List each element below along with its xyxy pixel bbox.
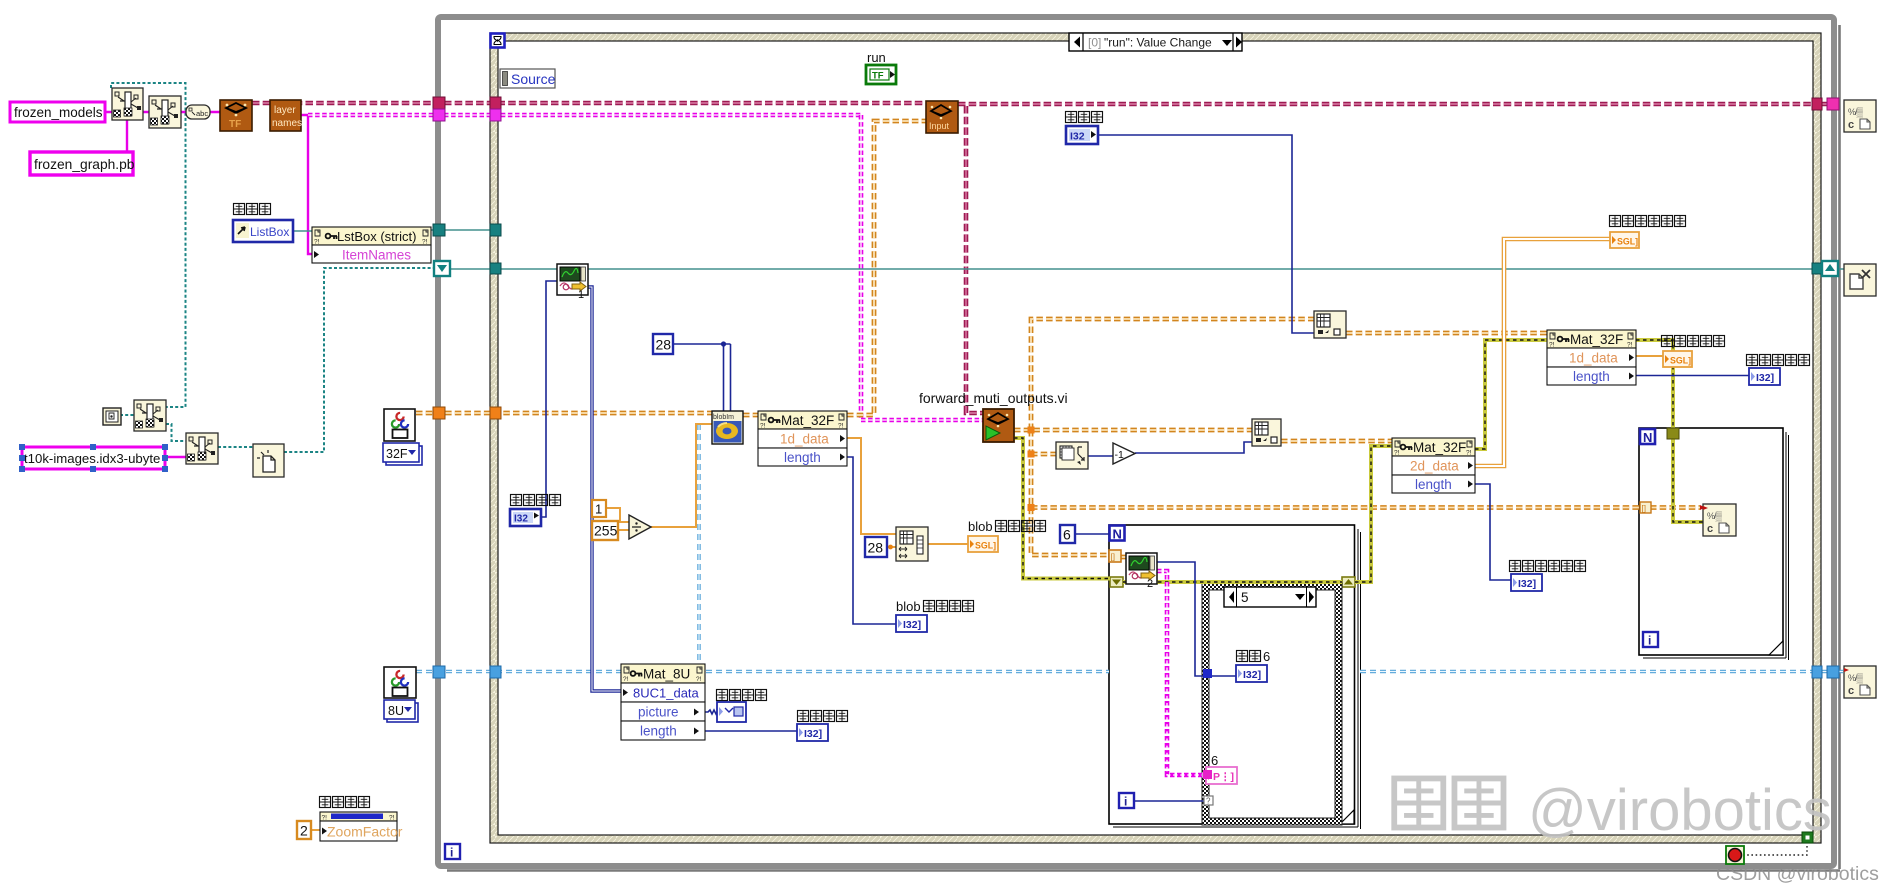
tunnel olive on right for loop top — [1667, 428, 1679, 439]
event Source label box — [500, 69, 556, 88]
tunnel teal on while left border (listbox ref) — [433, 224, 445, 236]
svg-text:?!: ?! — [696, 676, 702, 683]
tunnel dark red on while right border — [1827, 98, 1839, 110]
wire: olive Mat wire inside inner for loop — [1123, 580, 1342, 584]
junction dots on orange trunk — [1028, 427, 1035, 512]
svg-text:SGL]: SGL] — [1617, 237, 1638, 247]
wire: TF session dark-red chain from TF icon across event to right edge — [252, 103, 1828, 104]
tunnel dark red on event left border — [490, 97, 501, 109]
while loop border — [438, 17, 1840, 871]
wire: olive Mat from right shift register to Mat_32F 2d node — [1355, 446, 1392, 582]
build path VI icon A — [112, 88, 143, 120]
svg-text:CSDN @virobotics: CSDN @virobotics — [1716, 863, 1879, 885]
svg-text:?!: ?! — [623, 676, 629, 683]
svg-text:%/▒: %/▒ — [1707, 511, 1723, 522]
label original size — [798, 711, 848, 722]
svg-text:Mat_32F: Mat_32F — [1413, 440, 1466, 455]
wire: path teal segments top-left cluster — [111, 83, 253, 447]
wire: Mat_32F length to blob size indicator — [847, 457, 896, 624]
svg-text:I32]: I32] — [1518, 578, 1536, 590]
orange array tunnel on inner for loop — [1109, 550, 1121, 562]
wire: forward outputs orange chain trunk — [1014, 319, 1700, 557]
svg-text:picture: picture — [638, 705, 679, 720]
svg-text:%/▒: %/▒ — [1848, 673, 1864, 684]
Mat to array transpose icon — [1056, 442, 1088, 469]
wire: magenta array from waveform VI 2 to pink indicator — [1157, 571, 1206, 775]
wire: SGL array 2D double line to final prediction — [1475, 239, 1610, 466]
svg-text:?!: ?! — [1549, 342, 1555, 349]
svg-text:Mat_8U: Mat_8U — [643, 667, 690, 682]
right for loop count terminal N — [1640, 429, 1655, 445]
svg-text:t10k-images.idx3-ubyte: t10k-images.idx3-ubyte — [24, 451, 160, 466]
svg-text:i: i — [1648, 634, 1651, 648]
svg-text:length: length — [1415, 477, 1452, 492]
numeric constant 28 (blob size) — [653, 334, 673, 354]
svg-text:I32]: I32] — [1243, 669, 1261, 681]
wire: listbox reference across event structure — [450, 268, 1844, 270]
svg-text:?!: ?! — [838, 423, 844, 430]
I32 array indicator final result size — [1511, 574, 1542, 591]
svg-text:frozen_graph.pb: frozen_graph.pb — [34, 157, 135, 172]
I32 image index control — [510, 509, 541, 526]
tunnel orange on event left border — [490, 407, 501, 419]
wire: image index I32 to waveform VI 1 — [541, 281, 557, 517]
event structure header [0] run: Value Change — [1069, 33, 1242, 51]
svg-text:blobIm: blobIm — [713, 414, 734, 421]
wire: magenta down-leg to forward_muti_outputs.vi — [861, 115, 983, 420]
svg-text:28: 28 — [868, 540, 884, 556]
svg-text:i: i — [450, 846, 453, 860]
red coercion dot on c icon input — [1700, 505, 1705, 510]
array-to-matrix icon Q — [1314, 311, 1346, 338]
tunnel teal on event left border (ref line) — [490, 263, 501, 274]
svg-text:6: 6 — [1211, 753, 1218, 768]
numeric constant 1 — [592, 500, 606, 517]
svg-text:I32: I32 — [1070, 131, 1085, 143]
tunnel light blue on while right border — [1827, 666, 1839, 678]
svg-text:?!: ?! — [322, 815, 328, 822]
svg-text:I32]: I32] — [903, 619, 921, 631]
SGL array indicator blob image — [968, 536, 998, 552]
svg-text:ZoomFactor: ZoomFactor — [327, 824, 403, 840]
tunnel teal on event left border (listbox ref) — [490, 224, 501, 236]
label final result size — [1510, 561, 1586, 572]
svg-text:6: 6 — [1063, 527, 1071, 543]
wire: Mat_8U picture squiggle to indicator — [705, 710, 718, 714]
wire: 28 constant to blobIm — [673, 341, 731, 411]
right for loop iteration terminal i — [1643, 632, 1658, 648]
inner for loop (x6 outputs) — [1109, 525, 1361, 829]
build path VI icon C — [134, 400, 166, 431]
svg-text:TF: TF — [229, 119, 241, 130]
svg-text:?!: ?! — [1394, 450, 1400, 457]
left shift register of while loop (down arrow) — [434, 261, 450, 276]
svg-text:@virobotics: @virobotics — [1528, 778, 1832, 843]
I32 array indicator selected layer size — [1749, 368, 1780, 385]
svg-text:8U: 8U — [388, 704, 404, 718]
wire: path teal from new-file icon up into while loop shift register — [284, 268, 435, 452]
svg-text:c: c — [1848, 685, 1854, 697]
svg-text:1d_data: 1d_data — [780, 432, 829, 447]
stop button — [1726, 846, 1744, 864]
wire: string-array magenta from layer names to ItemNames and into event — [301, 114, 861, 254]
svg-text:I32]: I32] — [804, 728, 822, 740]
left shift register (down arrow) of inner for loop — [1110, 577, 1123, 587]
svg-text:?!: ?! — [1627, 342, 1633, 349]
I32 array indicator size6 — [1236, 665, 1267, 682]
svg-text:[]: [] — [1642, 504, 1646, 513]
label original picture — [717, 690, 767, 701]
svg-text:2: 2 — [300, 823, 308, 839]
svg-text:Input: Input — [929, 121, 950, 131]
svg-text:?!: ?! — [760, 423, 766, 430]
svg-text:32F: 32F — [386, 447, 408, 461]
watermark zhihu virobotics — [1394, 778, 1832, 843]
svg-text:[0]: [0] — [1088, 36, 1101, 50]
svg-text:run: run — [867, 50, 886, 65]
wire: I32 net layer to icon Q — [1098, 135, 1314, 333]
svg-text:%/▒: %/▒ — [1848, 107, 1864, 118]
svg-text:abc: abc — [196, 109, 208, 118]
svg-text:1: 1 — [578, 289, 584, 301]
waveform draw VI icon 2 — [1126, 553, 1157, 590]
build path VI icon D — [186, 433, 218, 464]
svg-text:SGL]: SGL] — [1670, 356, 1691, 366]
svg-text:-1: -1 — [1115, 449, 1124, 461]
right shift register of while loop (up arrow) — [1822, 261, 1838, 276]
label net layer (listbox) — [234, 204, 271, 215]
layer names VI icon — [270, 100, 302, 131]
tunnel light blue on while left border — [433, 666, 445, 678]
svg-text:ItemNames: ItemNames — [342, 248, 411, 263]
svg-text:ListBox: ListBox — [250, 225, 289, 239]
svg-text:"run": Value Change: "run": Value Change — [1104, 36, 1212, 50]
numeric constant 6 — [1060, 525, 1075, 543]
svg-text:Mat_32F: Mat_32F — [781, 413, 834, 428]
svg-text:c: c — [1707, 523, 1713, 535]
32F ring constant — [383, 443, 422, 465]
tunnel magenta on while left border — [433, 109, 445, 121]
svg-text:28: 28 — [656, 337, 672, 353]
numeric constant 28 (reshape) — [865, 537, 887, 557]
label selected layer size — [1747, 355, 1810, 366]
label image index — [511, 495, 561, 506]
wire: orange chain icon Q to upper Mat_32F node — [1346, 331, 1547, 336]
wire: dark-red branch down to forward_muti_outputs.vi — [966, 106, 983, 413]
wire: ListBox refnum teal to LstBox property node — [293, 230, 490, 231]
numeric constant 2 — [297, 821, 311, 839]
wire: waveform VI 2 to case I32 — [1157, 562, 1236, 676]
svg-text:5: 5 — [1241, 590, 1249, 605]
svg-text:?!: ?! — [389, 815, 395, 822]
svg-text:[]: [] — [1111, 553, 1115, 562]
svg-text:N: N — [1113, 527, 1122, 542]
svg-text:I32: I32 — [514, 514, 528, 525]
float-to-string c icon bottom right — [1844, 666, 1876, 698]
svg-text:forward_muti_outputs.vi: forward_muti_outputs.vi — [919, 390, 1068, 406]
svg-text:blob: blob — [968, 519, 993, 534]
label original image (zoomfactor) — [320, 797, 370, 808]
svg-text:layer: layer — [274, 105, 296, 116]
tunnel dark red on event right border — [1812, 98, 1822, 110]
inner for loop count terminal N — [1110, 526, 1125, 542]
case selector label 5 — [1224, 587, 1316, 607]
float-to-string c icon in right for loop — [1703, 504, 1736, 536]
while loop iteration terminal i — [445, 844, 460, 860]
Input method VI icon — [926, 101, 958, 133]
divide operator — [629, 515, 651, 539]
event timeout hourglass terminal — [491, 34, 505, 48]
wire: Mat_8U length to size indicator — [705, 730, 797, 732]
svg-text:N: N — [1643, 430, 1652, 445]
Mat_32F upper property node — [1547, 330, 1636, 385]
numeric constant 255 — [592, 521, 618, 540]
wire: lower Mat_32F length to final size I32 — [1475, 484, 1511, 580]
label net layer I32 — [1066, 112, 1103, 123]
svg-text:6: 6 — [1263, 649, 1270, 664]
Mat_8U property node — [621, 664, 705, 740]
pink array indicator — [1206, 767, 1237, 784]
wire: Mat chain blobIm through Mat_32F node up to Input — [743, 121, 926, 415]
wire: pink path wires frozen_models chain — [105, 112, 220, 153]
new file VI icon — [253, 444, 284, 477]
tunnel light blue on event left border — [490, 666, 501, 678]
tunnel orange [] on right for loop left — [1640, 502, 1651, 513]
svg-text:2d_data: 2d_data — [1410, 459, 1459, 474]
label final prediction result — [1610, 216, 1686, 227]
case structure border — [1202, 583, 1342, 825]
tunnel dark red on while left border — [433, 97, 445, 109]
tunnel blue on case border (size wire) — [1203, 669, 1212, 678]
close reference icon right — [1844, 264, 1876, 296]
waveform draw VI icon 1 — [557, 264, 588, 301]
svg-text:names: names — [272, 118, 302, 129]
svg-text:?!: ?! — [1466, 450, 1472, 457]
ZoomFactor property node — [320, 812, 403, 841]
tunnel light blue on event right border — [1812, 666, 1822, 678]
tunnel magenta on event left border — [490, 109, 501, 121]
wire: upper Mat_32F length to I32 — [1636, 375, 1749, 377]
ListBox refnum control — [233, 220, 293, 242]
tunnel magenta on case border — [1203, 770, 1212, 779]
svg-text:blob: blob — [896, 599, 921, 614]
forward_muti_outputs VI icon — [983, 409, 1014, 442]
wire: light blue Mat_8U chain across diagram — [416, 670, 1845, 674]
TF model load VI icon — [220, 100, 252, 131]
tunnel orange on while left border — [433, 407, 445, 419]
svg-text:I32]: I32] — [1756, 372, 1774, 384]
svg-text:2: 2 — [1147, 578, 1153, 590]
array-to-matrix icon P — [1252, 419, 1281, 446]
wire: iteration i to case border — [1135, 800, 1204, 802]
tunnel teal on event right border — [1812, 263, 1822, 274]
reshape VI icon with 28 — [896, 527, 928, 561]
Mat_32F 2d property node — [1392, 438, 1475, 493]
wire: stop button dotted to loop condition — [1743, 842, 1807, 855]
file refnum small icon — [103, 408, 121, 425]
wire: olive Mat between the two right Mat_32F nodes — [1475, 340, 1547, 449]
build path VI icon B — [149, 96, 181, 128]
label size 6 — [1237, 651, 1261, 662]
wire: orange chain reshape icon P to Mat_32F 2d node — [1281, 439, 1392, 444]
svg-text:Mat_32F: Mat_32F — [1570, 332, 1623, 347]
right shift register (up arrow) of inner for loop — [1342, 577, 1355, 587]
negate -1 operator — [1113, 443, 1135, 464]
wire: 2 constant to ZoomFactor — [311, 829, 321, 831]
svg-text:SGL]: SGL] — [975, 541, 996, 551]
svg-text:i: i — [1124, 795, 1127, 809]
wire: light blue vertical from blobIm to Mat_8U node — [697, 424, 701, 664]
svg-text:TF: TF — [872, 71, 884, 82]
string constant frozen_graph.pb — [30, 152, 135, 175]
picture indicator — [717, 702, 746, 722]
event structure border — [490, 33, 1821, 843]
label selected layer data — [1662, 336, 1725, 347]
wire: olive Mat from upper Mat_32F into right for loop to c-icon — [1636, 340, 1703, 522]
svg-text:length: length — [1573, 369, 1610, 384]
wire: image 2D array from waveform VI 1 down to Mat_8U — [588, 287, 621, 691]
svg-text:?!: ?! — [422, 239, 428, 246]
run boolean terminal — [866, 50, 896, 84]
blobImage VI icon — [712, 411, 743, 444]
SGL array indicator final prediction — [1610, 232, 1639, 248]
path constant t10k-images.idx3-ubyte — [19, 444, 168, 472]
wire: 1d_data orange to blob image indicator — [847, 356, 1663, 549]
tunnel green stop on event bottom border — [1802, 832, 1813, 843]
svg-text:?: ? — [1206, 797, 1211, 806]
svg-text:?!: ?! — [314, 239, 320, 246]
path to string pill — [186, 105, 210, 119]
svg-text:LstBox (strict): LstBox (strict) — [337, 229, 416, 244]
RGB 32F type icon — [384, 409, 415, 441]
Mat_32F property node 1 — [758, 411, 847, 466]
float-to-string c icon top right — [1844, 100, 1876, 132]
8U ring constant — [384, 700, 418, 722]
inner for loop iteration terminal i — [1119, 793, 1134, 809]
wire: 6 constant to N — [1074, 533, 1109, 535]
wire: divide output up to blobIm — [606, 424, 712, 530]
svg-text:8UC1_data: 8UC1_data — [633, 686, 700, 701]
svg-text:Source: Source — [511, 71, 556, 87]
right for loop — [1639, 428, 1789, 660]
wire: pink path from t10k-images constant — [165, 456, 186, 458]
I32 net layer control — [1066, 126, 1098, 144]
I32 array indicator blob size — [896, 615, 927, 632]
svg-text:255: 255 — [594, 523, 618, 539]
LstBox (strict) property node — [312, 227, 431, 263]
svg-text:frozen_models: frozen_models — [14, 105, 103, 120]
svg-text:1: 1 — [595, 502, 602, 517]
svg-text:c: c — [1848, 119, 1854, 131]
wire: olive Mat wire forward down to shift register — [1014, 438, 1110, 579]
svg-text:1d_data: 1d_data — [1569, 351, 1618, 366]
svg-text:length: length — [784, 450, 821, 465]
RGB 8U type icon — [384, 667, 416, 698]
question tunnel on case border — [1204, 796, 1213, 806]
wire: Mat 32F orange chain from RGB icon through tunnels to blobIm — [416, 411, 712, 416]
SGL array indicator selected layer — [1663, 351, 1692, 367]
I32 array indicator original size — [797, 724, 828, 741]
wire: grid-T icon to -1 to reshape icon P — [1088, 442, 1252, 456]
string constant frozen_models — [10, 102, 105, 122]
svg-text:length: length — [640, 724, 677, 739]
svg-text:P⋮]: P⋮] — [1213, 771, 1234, 783]
